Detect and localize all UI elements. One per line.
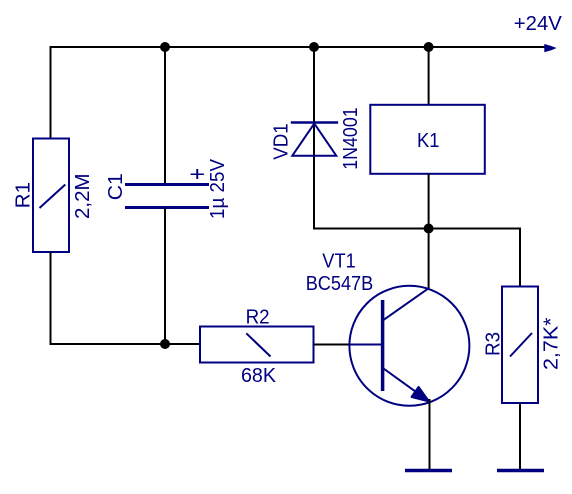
svg-text:1N4001: 1N4001 xyxy=(339,107,362,170)
resistor R2 xyxy=(200,327,314,363)
wire left drop to R1 xyxy=(50,46,52,139)
relay coil K1 xyxy=(370,105,485,174)
svg-text:+: + xyxy=(189,163,205,186)
wire node to R3 xyxy=(429,229,520,288)
wire K1 bottom xyxy=(428,174,430,229)
junction collector node xyxy=(424,224,434,234)
svg-text:1µ 25V: 1µ 25V xyxy=(206,159,229,219)
svg-text:C1: C1 xyxy=(104,173,127,200)
ground R3 xyxy=(497,469,544,473)
wire R2 input xyxy=(165,343,200,345)
resistor R3 xyxy=(502,287,538,404)
wire C1 top xyxy=(164,46,166,185)
wire emitter to ground xyxy=(429,399,431,470)
svg-text:BC547B: BC547B xyxy=(306,272,374,295)
wire VD1 to node xyxy=(313,228,430,230)
junction top-K1 xyxy=(424,42,434,52)
wire top rail +24V xyxy=(50,46,547,48)
diode VD1 xyxy=(291,123,338,156)
resistor R1 xyxy=(33,139,69,253)
wire K1 top xyxy=(428,46,430,105)
wire R1 bottom xyxy=(50,252,52,345)
arrowhead +24V rail xyxy=(545,45,555,52)
junction top-VD1 xyxy=(309,42,319,52)
svg-text:K1: K1 xyxy=(417,129,440,152)
svg-text:2,7K*: 2,7K* xyxy=(540,317,563,370)
wire node to collector xyxy=(428,229,430,290)
transistor VT1 xyxy=(349,286,469,406)
wire R3 bottom xyxy=(519,403,521,470)
svg-text:R2: R2 xyxy=(246,305,270,328)
svg-text:2,2M: 2,2M xyxy=(71,173,94,219)
svg-text:R1: R1 xyxy=(12,182,35,208)
ground emitter xyxy=(405,469,452,473)
junction bottom-C1 xyxy=(160,339,170,349)
svg-text:VD1: VD1 xyxy=(269,123,292,160)
junction top-C1 xyxy=(160,42,170,52)
wire bottom-left horizontal xyxy=(50,343,202,345)
capacitor C1 xyxy=(125,185,209,208)
svg-text:VT1: VT1 xyxy=(322,250,356,273)
svg-text:+24V: +24V xyxy=(514,12,562,35)
svg-text:68K: 68K xyxy=(241,364,276,387)
wire C1 bottom xyxy=(164,208,166,346)
wire VD1 vertical xyxy=(313,46,315,230)
svg-text:R3: R3 xyxy=(482,332,505,356)
wire R2 to base xyxy=(314,344,352,346)
